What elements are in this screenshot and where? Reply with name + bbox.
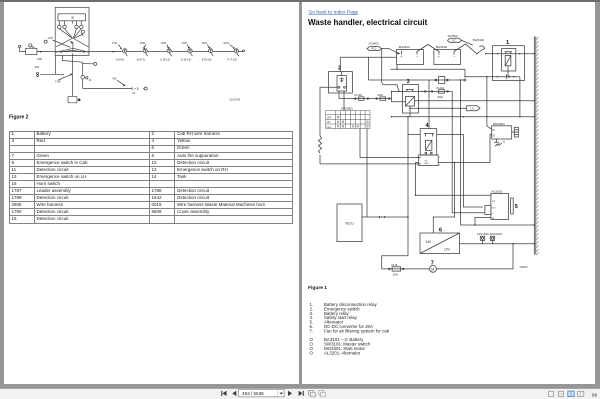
svg-text:AL3201: AL3201: [492, 189, 503, 193]
svg-text:1787: 1787: [48, 37, 54, 40]
svg-text:FU12: FU12: [437, 86, 445, 90]
svg-text:ONE: ONE: [424, 163, 429, 165]
svg-text:FU6: FU6: [392, 263, 398, 267]
svg-text:SW3101: SW3101: [473, 38, 485, 42]
svg-text:(2): (2): [132, 92, 135, 95]
svg-text:1788: 1788: [140, 42, 146, 45]
svg-text:89: 89: [592, 392, 598, 397]
svg-text:O: O: [310, 350, 314, 355]
svg-text:Figure 1: Figure 1: [308, 285, 327, 291]
svg-text:B.S: B.S: [492, 208, 496, 210]
svg-text:942: 942: [113, 78, 118, 81]
svg-text:3: 3: [439, 157, 441, 159]
svg-text:12V: 12V: [444, 248, 451, 252]
svg-text:24V: 24V: [426, 240, 433, 244]
svg-text:SW3301: SW3301: [341, 107, 353, 111]
svg-text:13: 13: [89, 79, 92, 82]
svg-text:7: 7: [431, 261, 434, 267]
svg-text:V96/50: V96/50: [520, 266, 529, 269]
svg-text:1785: 1785: [37, 58, 43, 61]
svg-text:VECU: VECU: [345, 221, 355, 225]
svg-text:10A: 10A: [393, 273, 399, 277]
svg-text:0019: 0019: [224, 42, 230, 45]
svg-text:40A: 40A: [378, 93, 384, 97]
svg-text:+: +: [400, 55, 402, 59]
svg-text:+: +: [492, 214, 494, 216]
svg-text:Waste handler, electrical circ: Waste handler, electrical circuit: [308, 18, 428, 27]
svg-text:1.5: 1.5: [470, 107, 474, 110]
svg-text:AL3201: Alternator: AL3201: Alternator: [324, 350, 361, 355]
svg-text:1786: 1786: [55, 80, 61, 83]
svg-text:21C: 21C: [451, 40, 456, 43]
svg-text:5: 5: [515, 204, 518, 210]
svg-text:Fan for air filtering system f: Fan for air filtering system for cab: [324, 328, 390, 333]
svg-text:BA3102: BA3102: [436, 45, 447, 49]
svg-text:A (9-9): A (9-9): [116, 58, 124, 62]
svg-text:F (7-15): F (7-15): [227, 58, 237, 62]
svg-text:E (9-15): E (9-15): [202, 58, 212, 62]
svg-text:939: 939: [35, 66, 40, 69]
svg-text:13: 13: [492, 201, 495, 203]
svg-text:BA3101: BA3101: [399, 45, 410, 49]
svg-text:1790: 1790: [182, 42, 188, 45]
svg-text:(8): (8): [71, 17, 74, 20]
svg-text:V1067/93: V1067/93: [230, 98, 241, 101]
svg-text:SCH62: SCH62: [369, 42, 379, 46]
svg-text:1789: 1789: [161, 42, 167, 45]
svg-text:SCH62: SCH62: [448, 34, 458, 38]
svg-text:MO3301: MO3301: [493, 122, 505, 126]
svg-text:–: –: [453, 55, 455, 59]
svg-text:OFF: OFF: [327, 117, 332, 119]
svg-text:B (9-7): B (9-7): [137, 58, 145, 62]
svg-text:4: 4: [439, 165, 441, 167]
svg-text:D (9-13): D (9-13): [181, 58, 191, 62]
svg-text:493 / 5638: 493 / 5638: [242, 391, 264, 396]
svg-text:FU16: FU16: [355, 93, 363, 97]
svg-text:2: 2: [338, 65, 341, 71]
svg-text:M: M: [431, 267, 434, 271]
svg-text:1: 1: [506, 40, 509, 46]
svg-text:7.: 7.: [310, 328, 314, 333]
svg-text:20A: 20A: [438, 95, 444, 99]
svg-text:3: 3: [407, 79, 410, 85]
svg-text:1787: 1787: [112, 42, 118, 45]
svg-text:C (9-11): C (9-11): [160, 58, 170, 62]
svg-text:PC1: PC1: [372, 48, 377, 51]
svg-text:–: –: [416, 55, 418, 59]
svg-text:12V 20A SOCKET: 12V 20A SOCKET: [477, 232, 502, 236]
svg-text:ON: ON: [327, 122, 331, 124]
svg-text:Figure 2: Figure 2: [9, 115, 29, 121]
svg-text:30: 30: [492, 130, 495, 132]
svg-text:Go back to Index Page: Go back to Index Page: [309, 9, 359, 15]
svg-text:+: +: [438, 55, 440, 59]
svg-text:1642: 1642: [202, 42, 208, 45]
svg-text:START: START: [326, 126, 333, 129]
svg-text:50: 50: [492, 135, 495, 137]
svg-text:31: 31: [503, 142, 506, 144]
svg-text:6: 6: [439, 227, 442, 233]
